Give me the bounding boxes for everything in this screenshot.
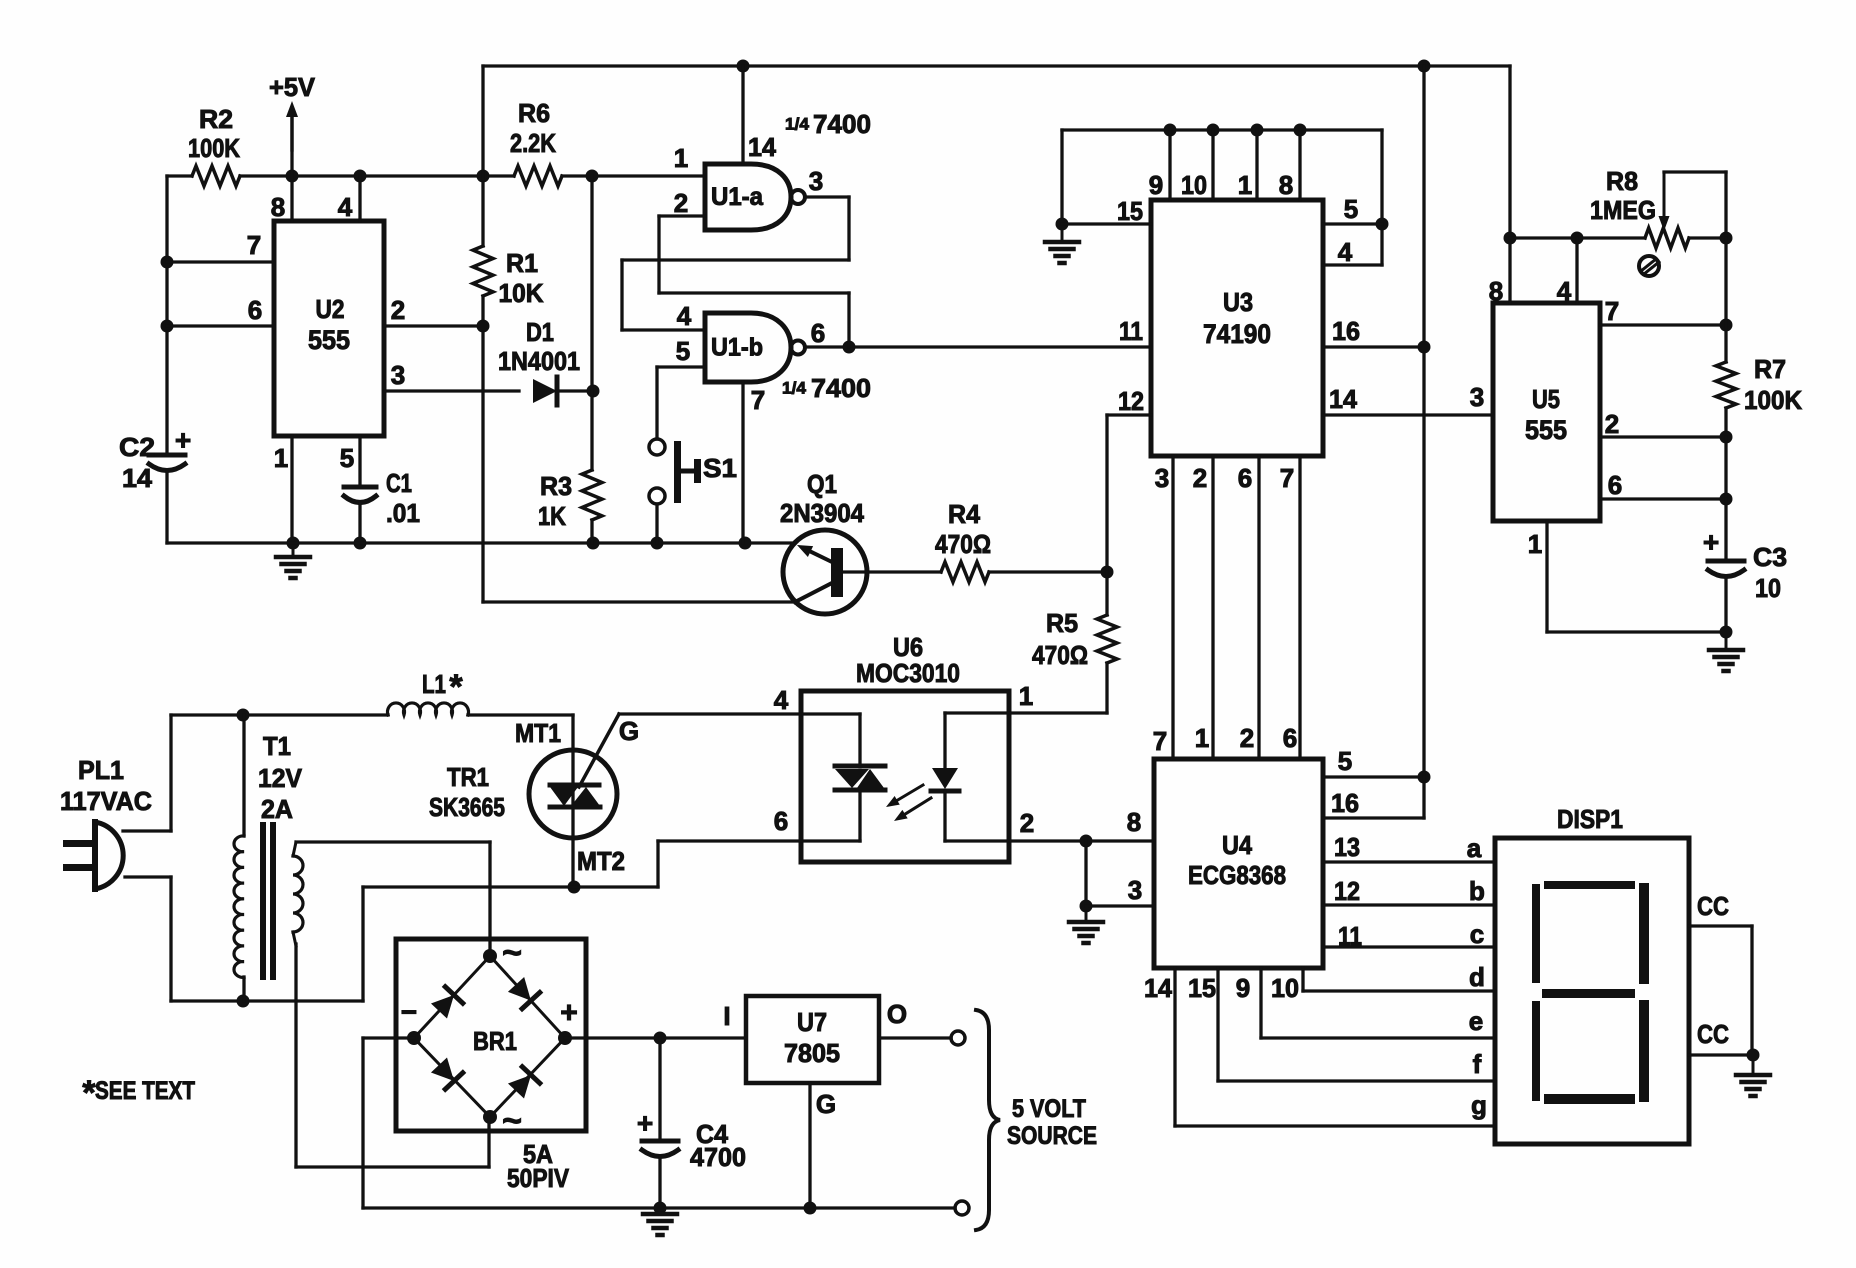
svg-text:ECG8368: ECG8368	[1188, 860, 1286, 890]
svg-text:74190: 74190	[1203, 319, 1271, 349]
svg-text:2: 2	[1020, 808, 1034, 838]
svg-text:5 VOLT: 5 VOLT	[1012, 1095, 1086, 1123]
svg-text:13: 13	[1334, 832, 1360, 862]
svg-text:.01: .01	[386, 498, 420, 528]
svg-text:a: a	[1467, 833, 1482, 863]
svg-text:1/4: 1/4	[785, 115, 810, 134]
svg-text:U4: U4	[1222, 830, 1252, 860]
svg-text:7400: 7400	[811, 373, 871, 403]
svg-text:2: 2	[674, 188, 688, 218]
svg-text:S1: S1	[703, 453, 737, 483]
svg-text:15: 15	[1117, 196, 1143, 226]
svg-text:555: 555	[308, 325, 350, 355]
svg-text:Q1: Q1	[807, 469, 837, 499]
svg-text:12V: 12V	[258, 763, 303, 793]
svg-text:~: ~	[502, 1102, 522, 1140]
svg-text:3: 3	[1470, 382, 1484, 412]
svg-text:R2: R2	[199, 104, 233, 134]
svg-text:11: 11	[1119, 316, 1143, 346]
svg-text:470Ω: 470Ω	[1032, 640, 1088, 670]
svg-text:5: 5	[340, 443, 354, 473]
svg-text:12: 12	[1118, 386, 1144, 416]
svg-text:R1: R1	[506, 248, 538, 278]
svg-text:4: 4	[774, 685, 789, 715]
svg-text:4700: 4700	[690, 1142, 746, 1172]
svg-text:15: 15	[1188, 973, 1216, 1003]
svg-text:DISP1: DISP1	[1557, 804, 1623, 834]
svg-text:7: 7	[1280, 463, 1294, 493]
svg-text:R3: R3	[540, 471, 572, 501]
svg-text:9: 9	[1236, 973, 1250, 1003]
svg-text:MOC3010: MOC3010	[856, 658, 960, 688]
svg-text:MT1: MT1	[515, 718, 561, 748]
svg-text:U1-a: U1-a	[711, 183, 764, 211]
svg-text:8: 8	[271, 192, 285, 222]
svg-text:6: 6	[1283, 723, 1297, 753]
svg-text:470Ω: 470Ω	[935, 529, 991, 559]
svg-text:G: G	[619, 716, 639, 746]
svg-text:2: 2	[1605, 409, 1619, 439]
svg-text:1N4001: 1N4001	[498, 346, 580, 376]
svg-text:3: 3	[1128, 875, 1142, 905]
svg-text:T1: T1	[263, 731, 291, 761]
svg-text:2A: 2A	[261, 794, 293, 824]
svg-text:MT2: MT2	[577, 846, 625, 876]
svg-text:1: 1	[1195, 723, 1209, 753]
svg-text:b: b	[1469, 876, 1485, 906]
svg-text:3: 3	[391, 360, 405, 390]
svg-text:5: 5	[1338, 746, 1352, 776]
svg-text:R4: R4	[948, 499, 981, 529]
svg-text:6: 6	[248, 295, 262, 325]
svg-text:C3: C3	[1753, 542, 1787, 572]
svg-text:1: 1	[674, 143, 688, 173]
svg-text:CC: CC	[1697, 891, 1729, 921]
svg-text:L1: L1	[422, 669, 446, 699]
svg-text:1K: 1K	[538, 501, 566, 531]
svg-text:C1: C1	[386, 468, 412, 498]
svg-text:4: 4	[338, 192, 353, 222]
svg-text:5: 5	[1344, 194, 1358, 224]
svg-text:16: 16	[1331, 788, 1359, 818]
svg-text:*: *	[449, 668, 463, 706]
svg-text:f: f	[1473, 1049, 1482, 1079]
svg-text:g: g	[1471, 1090, 1487, 1120]
svg-text:+5V: +5V	[269, 72, 316, 102]
svg-text:+: +	[560, 997, 578, 1030]
svg-text:R8: R8	[1606, 166, 1638, 196]
svg-text:I: I	[723, 1001, 730, 1031]
svg-text:7400: 7400	[813, 109, 871, 139]
svg-text:G: G	[816, 1089, 836, 1119]
svg-text:7: 7	[247, 230, 261, 260]
svg-text:14: 14	[122, 463, 153, 493]
svg-text:−: −	[401, 997, 417, 1028]
svg-text:O: O	[887, 999, 907, 1029]
svg-text:~: ~	[502, 934, 522, 972]
svg-text:2: 2	[391, 295, 405, 325]
svg-text:8: 8	[1489, 276, 1503, 306]
svg-text:U2: U2	[316, 294, 345, 324]
svg-text:SEE TEXT: SEE TEXT	[95, 1077, 195, 1105]
svg-text:9: 9	[1149, 170, 1163, 200]
svg-text:c: c	[1470, 919, 1484, 949]
svg-text:1MEG: 1MEG	[1590, 195, 1656, 225]
svg-text:555: 555	[1525, 415, 1567, 445]
svg-text:11: 11	[1338, 921, 1362, 951]
svg-text:14: 14	[1144, 973, 1173, 1003]
svg-text:5: 5	[676, 336, 690, 366]
svg-text:10K: 10K	[499, 278, 544, 308]
svg-text:1: 1	[1019, 681, 1033, 711]
svg-text:14: 14	[748, 132, 777, 162]
svg-text:1: 1	[274, 443, 288, 473]
svg-text:C2: C2	[119, 432, 155, 462]
svg-text:CC: CC	[1697, 1019, 1729, 1049]
svg-text:16: 16	[1332, 316, 1360, 346]
svg-text:2.2K: 2.2K	[510, 128, 556, 158]
svg-text:7805: 7805	[784, 1038, 840, 1068]
svg-text:10: 10	[1271, 973, 1299, 1003]
svg-text:1/4: 1/4	[782, 379, 807, 398]
svg-text:12: 12	[1334, 876, 1360, 906]
svg-text:2: 2	[1193, 463, 1207, 493]
svg-text:SOURCE: SOURCE	[1007, 1122, 1097, 1150]
svg-text:6: 6	[1238, 463, 1252, 493]
svg-text:+: +	[175, 425, 191, 456]
svg-text:U7: U7	[797, 1007, 827, 1037]
svg-text:U5: U5	[1532, 384, 1560, 414]
svg-text:TR1: TR1	[447, 762, 489, 792]
svg-text:R5: R5	[1046, 608, 1078, 638]
svg-text:2N3904: 2N3904	[780, 498, 864, 528]
svg-text:117VAC: 117VAC	[60, 786, 152, 816]
svg-text:3: 3	[809, 166, 823, 196]
svg-text:100K: 100K	[1744, 385, 1802, 415]
svg-text:1: 1	[1238, 170, 1252, 200]
svg-text:U1-b: U1-b	[711, 334, 763, 362]
svg-text:7: 7	[1605, 296, 1619, 326]
svg-text:+: +	[637, 1108, 653, 1139]
svg-text:d: d	[1469, 962, 1485, 992]
svg-text:+: +	[1703, 527, 1719, 558]
svg-text:U3: U3	[1223, 287, 1253, 317]
svg-text:2: 2	[1240, 723, 1254, 753]
svg-text:D1: D1	[526, 317, 554, 347]
svg-text:100K: 100K	[188, 133, 240, 163]
svg-text:6: 6	[1608, 470, 1622, 500]
svg-text:7: 7	[751, 385, 765, 415]
svg-text:e: e	[1469, 1006, 1483, 1036]
svg-text:SK3665: SK3665	[429, 792, 505, 822]
svg-text:8: 8	[1279, 170, 1293, 200]
svg-text:R6: R6	[518, 98, 550, 128]
svg-text:8: 8	[1127, 807, 1141, 837]
svg-text:4: 4	[1338, 237, 1353, 267]
svg-text:4: 4	[1557, 276, 1572, 306]
svg-text:1: 1	[1528, 529, 1542, 559]
svg-text:3: 3	[1155, 463, 1169, 493]
svg-text:6: 6	[811, 318, 825, 348]
svg-text:50PIV: 50PIV	[507, 1163, 570, 1193]
svg-text:R7: R7	[1754, 354, 1786, 384]
svg-text:4: 4	[677, 301, 692, 331]
svg-text:10: 10	[1181, 170, 1207, 200]
svg-text:14: 14	[1329, 384, 1358, 414]
svg-text:10: 10	[1755, 573, 1781, 603]
svg-text:BR1: BR1	[473, 1026, 517, 1056]
svg-text:7: 7	[1153, 726, 1167, 756]
svg-text:6: 6	[774, 806, 788, 836]
svg-text:PL1: PL1	[78, 755, 124, 785]
